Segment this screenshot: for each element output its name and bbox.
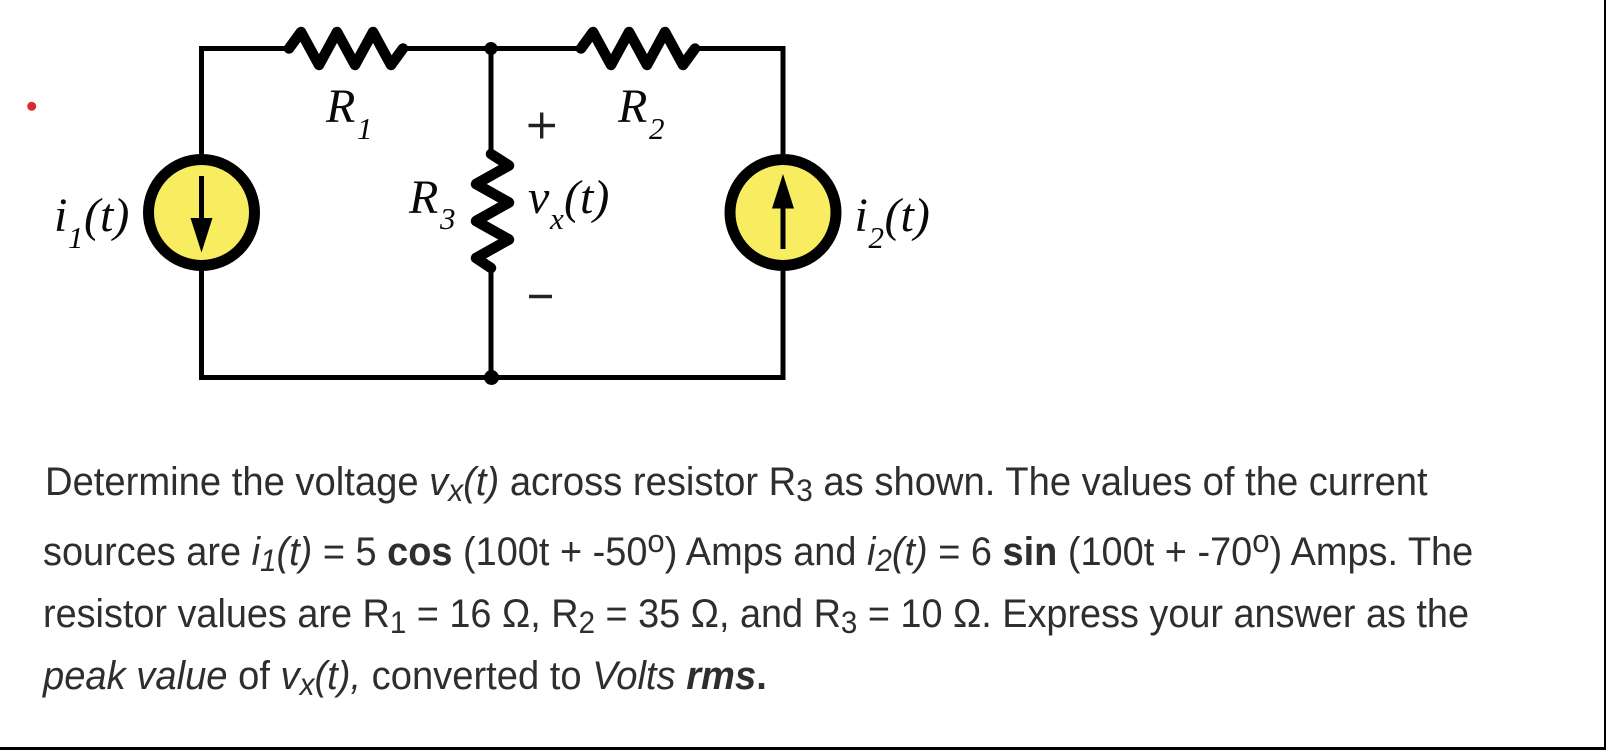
svg-text:x: x — [549, 201, 564, 236]
problem text line 4 — [43, 653, 767, 702]
problem text line 1 — [45, 459, 1428, 508]
page border right — [1604, 0, 1606, 750]
resistor R3 — [476, 154, 509, 268]
svg-text:2: 2 — [649, 111, 665, 146]
problem text line 3 — [43, 591, 1469, 640]
page border bottom — [0, 747, 1606, 750]
svg-text:1: 1 — [68, 220, 84, 255]
wire right vertical upper — [781, 46, 786, 154]
svg-text:R: R — [617, 80, 647, 133]
polarity plus sign — [529, 113, 556, 139]
resistor R2 — [581, 32, 695, 65]
wire right vertical lower — [781, 271, 786, 380]
wire node B to R2 — [491, 46, 581, 51]
svg-text:(t): (t) — [885, 189, 930, 242]
circuit schematic — [0, 0, 1000, 430]
wire R1 to node B — [403, 46, 491, 51]
svg-text:(t): (t) — [564, 171, 609, 224]
wire left vertical upper — [199, 46, 204, 155]
resistor R1 — [289, 32, 403, 65]
node junction dot bottom — [484, 370, 499, 385]
current source I1 arrow (down) — [199, 176, 204, 228]
wire bottom horizontal — [200, 375, 786, 380]
svg-text:(t): (t) — [84, 189, 129, 242]
svg-text:1: 1 — [357, 111, 373, 146]
svg-text:R: R — [408, 171, 438, 224]
red bullet dot — [27, 102, 36, 111]
wire middle vertical upper — [489, 49, 494, 157]
svg-text:R: R — [325, 80, 355, 133]
svg-text:i: i — [855, 189, 868, 242]
wire middle vertical lower — [489, 267, 494, 380]
wire left vertical lower — [199, 270, 204, 380]
current source I2 circle — [730, 160, 836, 266]
polarity minus sign — [529, 295, 552, 298]
problem text line 2 — [43, 529, 1473, 578]
svg-text:i: i — [54, 189, 67, 242]
wire top-left horizontal (node A to R1) — [200, 46, 290, 51]
svg-text:2: 2 — [869, 220, 885, 255]
node junction dot top — [485, 42, 498, 55]
current source I1 circle — [149, 160, 255, 266]
current source I2 arrow (up) — [781, 198, 786, 249]
wire R2 to top-right corner — [695, 46, 786, 51]
svg-text:3: 3 — [439, 201, 456, 236]
svg-text:v: v — [528, 171, 550, 224]
